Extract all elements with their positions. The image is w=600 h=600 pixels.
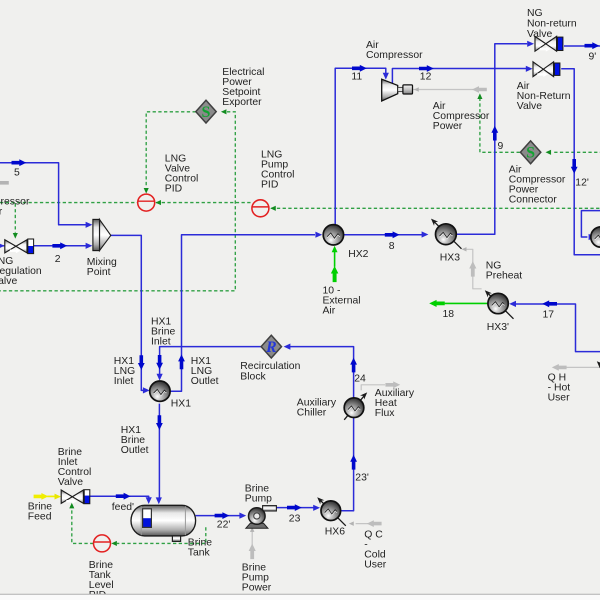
wire: brine feed (47, 495, 55, 497)
svg-text:HX6: HX6 (325, 527, 345, 538)
arrowhead into HX3' right port (509, 301, 516, 307)
arrowhead into brine pump base (250, 527, 254, 532)
terminal arrow: Brine Pump Power up (249, 544, 256, 560)
svg-text:2: 2 (55, 254, 61, 265)
signal: right edge to LNG pump PID (271, 207, 600, 209)
valve: Brine Inlet Control Valve (61, 490, 90, 504)
arrowhead up into brine inlet control valve (69, 503, 74, 509)
svg-text:BrinePump: BrinePump (245, 483, 272, 504)
svg-text:22': 22' (217, 520, 231, 531)
arrow glyph: stream 11 (352, 65, 367, 72)
bottom canvas edge strip (0, 594, 600, 600)
arrow glyph: stream 23 (287, 504, 302, 511)
wire: Q H hot user stream (566, 366, 600, 368)
arrowhead into brine pump inlet (239, 513, 246, 519)
arrowhead into brine tank top left (146, 497, 152, 504)
heat exchanger HX3 (429, 217, 462, 249)
wire: LNG feed into regulation valve (0, 245, 4, 247)
wire: stream 8 HX2 to HX3 (343, 234, 422, 236)
arrow glyph: stream 22' (215, 512, 230, 519)
wire: stream 17 right edge to HX3' (515, 304, 600, 352)
wire: stream 9' NG valve outlet to right edge (564, 45, 600, 47)
wire: feed' valve to brine tank (90, 496, 149, 499)
arrowhead into LNG regulation valve top (13, 233, 18, 239)
wire: stream 23 pump to HX6 (272, 507, 314, 509)
arrow glyph: stream 9' (585, 42, 600, 49)
terminal arrow: stream 10 external air (331, 266, 338, 282)
mixing point (93, 219, 111, 250)
svg-text:12': 12' (575, 177, 589, 188)
heat exchanger Auxiliary Chiller (344, 390, 369, 419)
arrowhead into mixing point top (86, 222, 93, 228)
wire: stream 24 chiller up to recirculation block (290, 347, 354, 398)
heat exchanger HX2 (323, 225, 343, 245)
wire: loop into right-edge heat exchanger (581, 211, 600, 237)
arrowhead into compressor motor (414, 87, 419, 91)
arrow glyph: stream 24 up (350, 358, 357, 373)
svg-text:ElectricalPowerSetpointExporte: ElectricalPowerSetpointExporter (222, 67, 264, 108)
wire: stream 23' HX6 up to auxiliary chiller (341, 418, 354, 511)
arrowhead into HX6 left port (313, 505, 320, 511)
signal: LNG pump PID to LNG valve PID measurement (156, 202, 252, 204)
heat exchanger HX3' (483, 288, 514, 319)
heat exchanger arrow at right edge (hot user HX) (595, 359, 600, 368)
signal: LNG valve PID output to left edge (0, 202, 137, 204)
svg-text:R: R (265, 339, 277, 356)
valve: NG Non-return Valve (535, 36, 563, 51)
arrow glyph: stream 8 (385, 231, 400, 238)
arrowhead into brine inlet control valve (55, 494, 61, 500)
heat exchanger HX1 (150, 381, 170, 401)
controller: Brine Tank Level PID (94, 535, 111, 552)
svg-text:8: 8 (389, 241, 395, 252)
arrowhead into HX2 left port (315, 232, 322, 238)
svg-text:BrineTank: BrineTank (188, 538, 212, 559)
valve: LNG Regulation Valve (5, 239, 34, 254)
svg-text:18: 18 (443, 309, 455, 320)
heat exchanger at right edge (591, 227, 600, 247)
svg-text:HX3': HX3' (487, 322, 509, 333)
arrowhead into air non-return valve (526, 66, 533, 72)
air compressor (382, 79, 413, 101)
arrowhead into LNG regulation valve (0, 243, 5, 249)
arrow glyph: stream 9 up (491, 126, 498, 141)
svg-text:S: S (202, 104, 211, 121)
arrow glyph: stream 5 (12, 159, 27, 166)
arrowhead into exporter diamond right vertex (221, 109, 227, 114)
arrow glyph: HX1 brine outlet down (156, 415, 163, 430)
connector: Electrical Power Setpoint Exporter (196, 100, 216, 123)
arrowhead up into gray power stream (477, 93, 482, 99)
wire: stream 12' air valve outlet to right edge (561, 69, 600, 255)
signal: connector diamond up to air compressor power tail (480, 99, 520, 152)
Recirculation Block (261, 335, 281, 358)
terminal arrow: air compressor power (472, 86, 487, 93)
terminal arrow: NG preheat up (469, 261, 476, 277)
terminal arrow: Brine Feed (34, 493, 49, 500)
arrowhead into HX1 top port (157, 374, 163, 381)
wire: stream 10 external air into HX2 (334, 250, 336, 267)
svg-text:HX3: HX3 (440, 253, 460, 264)
terminal arrow: stream 18 (429, 300, 445, 307)
wire: auxiliary heat flux from chiller (361, 385, 385, 391)
wire: stream 5 to mixing point top inlet (0, 163, 86, 225)
brine tank level indicator (143, 509, 152, 528)
wire: HX1 brine outlet down to tank (158, 404, 160, 500)
signal: brine tank level to level PID (117, 527, 206, 543)
arrowhead into HX1 left port (143, 387, 150, 393)
arrowhead into LNG pump PID right (270, 206, 276, 211)
arrow glyph: stream 12' down (571, 159, 578, 174)
connector: Air Compressor Power Connector (520, 141, 540, 164)
wire: air compressor power stream (412, 89, 486, 91)
terminal stub: compressor power at left edge (0, 181, 9, 185)
svg-text:HX2: HX2 (348, 249, 368, 260)
brine pump (246, 506, 277, 529)
terminal arrow: Q C - Cold User (367, 520, 382, 527)
signal: setpoint exporter to LNG valve PID (146, 112, 196, 188)
signal: PID output down to LNG regulation valve (14, 203, 16, 232)
svg-text:HX1LNGInlet: HX1LNGInlet (114, 356, 135, 387)
svg-text:17: 17 (543, 310, 555, 321)
svg-text:HX1: HX1 (171, 399, 191, 410)
svg-text:9: 9 (498, 141, 504, 152)
signal: right edge to air compressor power connector (554, 151, 600, 153)
arrowhead into brine tank level PID right (111, 541, 117, 546)
arrow glyph: stream 17 (542, 300, 557, 307)
svg-text:feed': feed' (112, 502, 134, 513)
arrow glyph: stream 23' up (350, 455, 357, 470)
wire: Q C cold user stream into HX6 (356, 523, 381, 525)
arrowhead into HX2 bottom port (332, 246, 338, 252)
valve: Air Non-Return Valve (533, 62, 560, 77)
arrowhead into mixing point bottom (86, 243, 93, 249)
svg-text:23': 23' (355, 473, 369, 484)
arrow glyph: stream 12 (419, 65, 434, 72)
terminal arrow: Auxiliary Heat Flux (385, 381, 400, 388)
arrow glyph: stream feed' (116, 493, 131, 500)
wire: recirculation block to HX1 brine inlet (160, 347, 262, 376)
arrowhead into brine tank top right (156, 497, 162, 504)
wire: stream 22' tank to brine pump (196, 515, 240, 517)
arrow glyph: stream 2 (52, 242, 67, 249)
wire: stream 2 valve to mixing point (34, 245, 86, 247)
wire: stream 11 HX2 to air compressor inlet (335, 68, 386, 224)
svg-text:12: 12 (420, 72, 432, 83)
controller: LNG Valve Control PID (138, 194, 155, 211)
arrowhead into LNG valve PID right (155, 200, 161, 205)
arrowhead into HX3 left port (422, 231, 429, 237)
svg-text:5: 5 (14, 168, 20, 179)
arrowhead into connector diamond right vertex (546, 150, 552, 155)
wire: stream 9 HX3 outlet up to NG non-return valve (457, 44, 528, 235)
svg-text:S: S (526, 145, 535, 162)
heat exchanger HX6 (315, 495, 346, 526)
svg-text:11: 11 (351, 72, 362, 83)
svg-text:24: 24 (354, 373, 366, 384)
wire: mixing point outlet down to HX1 LNG inlet (111, 235, 144, 390)
controller: LNG Pump Control PID (252, 200, 269, 217)
signal: level PID output to brine inlet control valve (72, 508, 94, 543)
wire: NG Preheat heat stream HX3' to HX3 (466, 249, 482, 288)
arrow glyph: HX1 brine inlet down (156, 355, 163, 370)
wire: HX1 LNG outlet up and right to HX2 (170, 235, 315, 392)
wire: stream 12 compressor to air non-return valve (392, 69, 526, 85)
svg-text:BrineFeed: BrineFeed (28, 501, 52, 522)
svg-text:9': 9' (589, 52, 597, 63)
arrowhead into recirculation block right vertex (284, 344, 291, 350)
arrowhead into compressor inlet (383, 73, 389, 80)
wire: brine pump power (251, 530, 253, 547)
arrowhead into NG non-return valve (527, 41, 534, 47)
arrowhead into edge heat exchanger (589, 234, 596, 240)
arrow glyph: HX1 LNG inlet down (138, 355, 145, 370)
signal: left-edge power setpoint to exporter diamond (0, 112, 235, 291)
arrowhead into HX3 heat port (462, 247, 467, 251)
terminal arrow: Q H - Hot User (552, 364, 567, 371)
arrowhead into LNG valve PID top (144, 188, 149, 194)
arrow glyph: HX1 LNG outlet up (178, 354, 185, 369)
svg-text:23: 23 (289, 513, 301, 524)
wire: stream 18 out of HX3' (445, 302, 488, 304)
brine tank (131, 505, 196, 541)
arrowhead into HX6 heat port (349, 521, 354, 525)
